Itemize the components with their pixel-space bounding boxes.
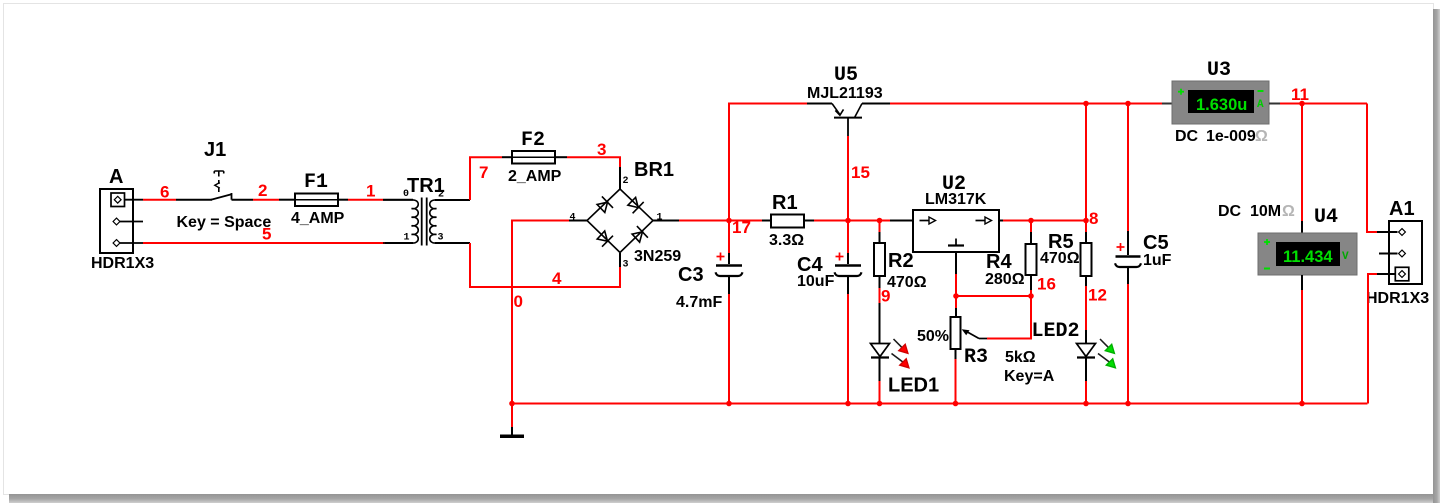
wire net 16 adjust net <box>956 274 1031 339</box>
ground bus net 0 <box>512 403 1368 405</box>
switch J1 <box>211 171 253 200</box>
resistor R1 <box>762 215 814 228</box>
junction node 15 at R2 column <box>877 218 883 224</box>
svg-text:15: 15 <box>851 163 870 182</box>
svg-text:R3: R3 <box>964 346 988 369</box>
regulator U2 <box>913 210 999 274</box>
svg-text:10uF: 10uF <box>797 273 835 290</box>
svg-text:C5: C5 <box>1143 232 1169 254</box>
junction node 8 at R4 <box>1028 218 1034 224</box>
svg-text:3N259: 3N259 <box>634 248 681 265</box>
U4 minus mark <box>1264 268 1270 270</box>
junction C3 bus <box>726 401 732 407</box>
svg-text:3.3Ω: 3.3Ω <box>769 232 804 249</box>
svg-text:0: 0 <box>403 189 409 200</box>
junction node 11 at U4 <box>1299 101 1305 107</box>
junction node 16 left <box>953 293 959 299</box>
C5 polarity plus <box>1117 243 1125 251</box>
LED1 light arrow 1 <box>894 339 908 353</box>
wire net 11 from U3 to A1 pin 1 <box>1280 104 1377 233</box>
svg-text:16: 16 <box>1037 275 1056 294</box>
capacitor C4 <box>835 221 862 295</box>
svg-text:470Ω: 470Ω <box>887 274 927 291</box>
svg-text:8: 8 <box>1089 209 1098 228</box>
svg-text:12: 12 <box>1088 286 1107 305</box>
svg-text:5kΩ: 5kΩ <box>1005 349 1036 366</box>
junction U4 bus <box>1299 401 1305 407</box>
wire net 5 from A pin 3 to TR1 <box>143 242 413 244</box>
svg-text:3: 3 <box>597 140 606 159</box>
LED LED1 <box>871 344 890 382</box>
svg-text:Key = Space: Key = Space <box>177 214 272 231</box>
svg-text:F2: F2 <box>521 129 545 152</box>
C3 polarity plus <box>717 253 725 261</box>
resistor R2 <box>874 221 885 289</box>
svg-text:A: A <box>1257 99 1264 111</box>
wire net 15 from R1 to U2 input with taps <box>814 136 913 221</box>
svg-text:4: 4 <box>552 269 562 288</box>
svg-text:J1: J1 <box>204 139 226 161</box>
U3 minus mark <box>1258 90 1264 92</box>
svg-text:11.434: 11.434 <box>1283 248 1333 266</box>
svg-text:1e-009: 1e-009 <box>1206 128 1256 145</box>
junction node 8 at R5 <box>1083 218 1089 224</box>
wire net 0 from LED2 to bus <box>1085 381 1087 404</box>
wire net 9 from R2 to LED1 <box>879 288 881 343</box>
svg-text:Ω: Ω <box>1282 203 1295 220</box>
wire net 0 from LED1 to bus <box>879 381 881 404</box>
wire net 0 from C5 to bus <box>1127 284 1129 404</box>
fuse F2 <box>512 151 567 164</box>
wire net 0 from C3 to bus <box>728 294 730 404</box>
svg-text:4_AMP: 4_AMP <box>291 210 345 227</box>
junction ground bus at BR1 column <box>509 401 515 407</box>
ammeter U3 <box>1162 81 1280 124</box>
LED1 light arrow 2 <box>892 354 909 368</box>
svg-text:1: 1 <box>366 182 375 201</box>
svg-text:A1: A1 <box>1389 198 1415 220</box>
svg-text:50%: 50% <box>917 328 949 345</box>
wire net 3 from F2 to BR1 pin 2 <box>567 157 620 189</box>
transistor U5 <box>807 104 890 137</box>
transformer TR1 <box>383 198 470 246</box>
bridge rectifier BR1 <box>569 189 679 253</box>
resistor R4 <box>1026 232 1037 290</box>
svg-text:Ω: Ω <box>1255 128 1268 145</box>
junction C4 bus <box>845 401 851 407</box>
svg-text:2: 2 <box>258 181 267 200</box>
svg-text:9: 9 <box>881 287 890 306</box>
svg-text:LED2: LED2 <box>1032 320 1080 343</box>
wire net 1 from F1 to TR1 <box>348 199 413 201</box>
U3 plus mark <box>1178 89 1184 95</box>
svg-text:1uF: 1uF <box>1143 252 1172 269</box>
potentiometer R3 <box>951 308 961 359</box>
svg-text:1: 1 <box>657 213 663 224</box>
svg-text:F1: F1 <box>304 171 328 194</box>
capacitor C5 <box>1115 231 1141 284</box>
wire net 4 from TR1 to BR1 pin 3 <box>470 243 620 287</box>
wire net 17 from BR1 pin 1 to R1 and top rail <box>679 104 807 254</box>
svg-text:LED1: LED1 <box>888 375 939 397</box>
svg-text:2: 2 <box>438 190 444 201</box>
svg-text:1.630u: 1.630u <box>1196 96 1247 114</box>
wire net 12 from R5 to LED2 <box>1085 286 1087 343</box>
svg-text:DC: DC <box>1175 128 1199 145</box>
wire net 6 from A pin 1 to J1 <box>143 199 212 201</box>
svg-text:HDR1X3: HDR1X3 <box>91 255 154 272</box>
junction LED1 bus <box>877 401 883 407</box>
junction C5 bus <box>1125 401 1131 407</box>
svg-text:3: 3 <box>623 260 629 271</box>
junction LED2 bus <box>1083 401 1089 407</box>
svg-text:10M: 10M <box>1250 203 1281 220</box>
svg-text:U3: U3 <box>1207 59 1231 82</box>
resistor R5 <box>1081 232 1092 286</box>
svg-text:R2: R2 <box>888 250 914 272</box>
wire net 0 from R3 to bus <box>955 359 957 404</box>
U4 plus mark <box>1264 239 1270 245</box>
wire net 8 from U2 output with rail and taps <box>890 104 1162 233</box>
wire net 0 from C4 to bus <box>847 294 849 404</box>
ground symbol <box>500 404 524 437</box>
LED LED2 <box>1077 344 1096 382</box>
svg-text:MJL21193: MJL21193 <box>807 85 883 102</box>
svg-text:HDR1X3: HDR1X3 <box>1366 290 1429 307</box>
connector A <box>100 189 143 253</box>
capacitor C3 <box>716 253 743 294</box>
svg-text:3: 3 <box>438 233 444 244</box>
svg-text:U5: U5 <box>834 64 858 87</box>
junction node 8 at C5 rail <box>1125 101 1131 107</box>
wire net 2 from J1 to F1 <box>253 199 295 201</box>
svg-text:Key=A: Key=A <box>1004 368 1055 385</box>
R3 wiper arrow <box>962 329 987 338</box>
svg-text:BR1: BR1 <box>634 159 674 181</box>
junction node 15 at C4/U5 column <box>845 218 851 224</box>
svg-text:R4: R4 <box>986 251 1012 273</box>
svg-text:LM317K: LM317K <box>925 191 987 208</box>
svg-text:R1: R1 <box>772 192 798 214</box>
svg-text:U4: U4 <box>1314 206 1338 229</box>
wire net 0 from A1 pin 3 to bus <box>1368 274 1377 404</box>
junction node 16 right <box>1028 293 1034 299</box>
wire net 0 from BR1 pin 4 down to ground bus <box>512 221 569 404</box>
svg-text:4: 4 <box>570 213 576 224</box>
svg-text:5: 5 <box>262 225 271 244</box>
svg-text:V: V <box>1342 251 1349 263</box>
junction node 17 <box>726 218 732 224</box>
wire net 7 from TR1 to F2 <box>470 157 512 200</box>
svg-text:470Ω: 470Ω <box>1040 250 1080 267</box>
LED2 light arrow 1 <box>1100 339 1114 353</box>
svg-text:0: 0 <box>514 292 523 311</box>
junction R3 bus <box>953 401 959 407</box>
wire net 0 from U4 to bus <box>1301 290 1303 404</box>
C4 polarity plus <box>836 253 844 261</box>
svg-text:A: A <box>109 166 123 188</box>
voltmeter U4 <box>1258 221 1357 290</box>
svg-text:C3: C3 <box>678 264 704 286</box>
connector A1 <box>1377 221 1422 284</box>
svg-text:2: 2 <box>623 176 629 187</box>
svg-text:6: 6 <box>160 183 169 202</box>
junction node 8 at rail <box>1083 101 1089 107</box>
svg-text:11: 11 <box>1291 85 1309 104</box>
svg-text:2_AMP: 2_AMP <box>508 168 562 185</box>
svg-text:DC: DC <box>1218 203 1242 220</box>
svg-text:1: 1 <box>404 233 410 244</box>
LED2 light arrow 2 <box>1098 354 1115 368</box>
svg-text:7: 7 <box>479 163 488 182</box>
fuse F1 <box>295 194 348 207</box>
svg-text:4.7mF: 4.7mF <box>676 294 722 311</box>
svg-text:17: 17 <box>732 218 751 237</box>
svg-text:280Ω: 280Ω <box>985 271 1025 288</box>
